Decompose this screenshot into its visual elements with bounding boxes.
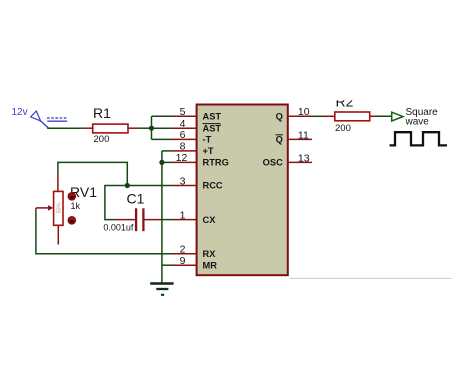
faint window edge line: [290, 277, 452, 279]
svg-text:Q: Q: [276, 112, 283, 122]
svg-text:CX: CX: [203, 215, 217, 225]
pin 13 OSC: [263, 152, 312, 167]
svg-text:3: 3: [180, 175, 186, 187]
pin 12 RTRG: [173, 152, 229, 167]
svg-text:OSC: OSC: [263, 158, 283, 168]
pin 2 RX: [173, 244, 217, 259]
pin 9 MR: [173, 255, 218, 270]
svg-text:wave: wave: [405, 117, 430, 128]
pin 1 CX: [173, 209, 217, 224]
svg-text:+T: +T: [203, 146, 214, 156]
node RC junction: [125, 183, 130, 188]
svg-text:12: 12: [176, 152, 188, 164]
wire vertical +T/RTRG to ground: [161, 151, 163, 284]
svg-text:200: 200: [94, 134, 110, 145]
wire pin 10 to R2: [313, 115, 325, 117]
svg-text:9: 9: [180, 255, 186, 267]
resistor R1: [82, 105, 137, 145]
node junction pins 5/4/6: [149, 126, 154, 131]
wire R2 to output: [376, 115, 392, 117]
pin 11 Q-bar: [276, 129, 313, 144]
wire node to RCC pin 3: [127, 185, 172, 187]
svg-text:RX: RX: [203, 249, 217, 259]
pin 3 RCC: [173, 175, 223, 190]
wire to pin 5: [152, 115, 173, 117]
capacitor C1: [103, 191, 161, 233]
wire wiper down to RX row: [36, 208, 173, 254]
svg-text:0.001uf: 0.001uf: [103, 223, 134, 233]
svg-text:10: 10: [298, 106, 310, 118]
node RTRG: [159, 160, 164, 165]
svg-text:MR: MR: [203, 260, 218, 270]
svg-text:5: 5: [180, 106, 186, 118]
wire to pin 4: [152, 127, 173, 129]
svg-text:1: 1: [180, 209, 186, 221]
wire pin 8: [162, 150, 173, 152]
pin 5 AST: [173, 106, 222, 121]
svg-text:RCC: RCC: [203, 181, 223, 191]
wire pin 12: [162, 161, 173, 163]
pin 6 -T: [173, 129, 212, 144]
terminal Square wave output: [392, 107, 438, 127]
wire to pin 6: [152, 138, 173, 140]
svg-text:8: 8: [180, 141, 186, 153]
terminal 12v input: [12, 107, 68, 128]
svg-text:12v: 12v: [12, 107, 28, 118]
svg-text:AST: AST: [203, 123, 222, 133]
svg-text:6: 6: [180, 129, 186, 141]
potentiometer RV1: [36, 173, 97, 244]
wire input to R1: [47, 127, 82, 129]
svg-text:R1: R1: [93, 105, 111, 121]
wire node to C1 left: [105, 186, 127, 220]
svg-text:RTRG: RTRG: [203, 158, 229, 168]
IC U1 body: [197, 105, 288, 276]
svg-text:11: 11: [298, 129, 309, 141]
svg-text:AST: AST: [203, 112, 222, 122]
svg-text:50%: 50%: [56, 202, 62, 213]
svg-text:Q: Q: [276, 135, 283, 145]
pin 8 +T: [173, 141, 214, 156]
svg-text:2: 2: [180, 244, 186, 256]
svg-text:4: 4: [180, 118, 186, 130]
svg-text:13: 13: [298, 152, 310, 164]
wire R1 to junction: [138, 127, 152, 129]
svg-text:200: 200: [335, 123, 351, 134]
wire pin 9 MR: [162, 264, 173, 266]
wire C1 to pin 1: [162, 219, 173, 221]
square wave symbol: [390, 132, 448, 145]
wire vertical bus 5-4-6: [151, 116, 153, 139]
pin 10 Q: [276, 106, 313, 121]
resistor R2: [325, 92, 376, 134]
svg-text:-T: -T: [203, 135, 212, 145]
svg-text:1k: 1k: [71, 201, 81, 211]
pin 4 AST-bar: [173, 118, 222, 133]
svg-text:C1: C1: [127, 191, 145, 207]
ground: [150, 284, 173, 295]
wire RV1 top riser: [58, 162, 127, 185]
